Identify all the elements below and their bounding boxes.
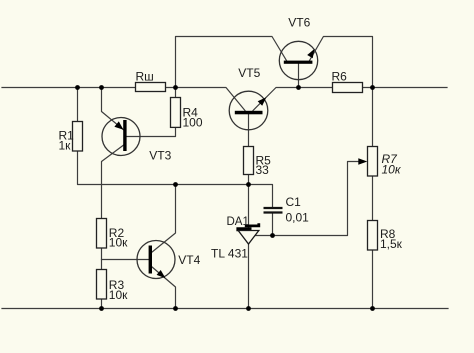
svg-text:100: 100 xyxy=(183,116,203,130)
svg-text:33: 33 xyxy=(256,163,270,177)
svg-text:1,5к: 1,5к xyxy=(380,237,403,251)
svg-text:1к: 1к xyxy=(59,138,72,152)
svg-text:TL 431: TL 431 xyxy=(211,246,248,260)
svg-text:0,01: 0,01 xyxy=(286,210,310,224)
svg-text:Rш: Rш xyxy=(136,69,154,83)
svg-text:10к: 10к xyxy=(109,288,128,302)
svg-text:10к: 10к xyxy=(109,236,128,250)
svg-text:VT3: VT3 xyxy=(149,148,171,162)
svg-text:DA1: DA1 xyxy=(227,216,249,228)
svg-text:VT5: VT5 xyxy=(238,66,260,80)
svg-text:R6: R6 xyxy=(332,69,348,83)
svg-text:VT6: VT6 xyxy=(288,15,310,29)
svg-text:10к: 10к xyxy=(382,162,402,176)
svg-text:VT4: VT4 xyxy=(178,253,200,267)
svg-text:C1: C1 xyxy=(286,195,302,209)
